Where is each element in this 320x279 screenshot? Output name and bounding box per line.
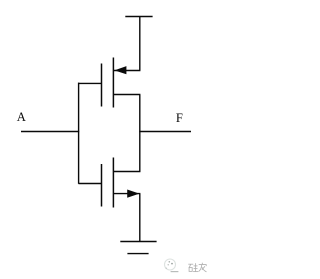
svg-text:A: A — [17, 110, 26, 124]
svg-text:F: F — [176, 111, 183, 125]
